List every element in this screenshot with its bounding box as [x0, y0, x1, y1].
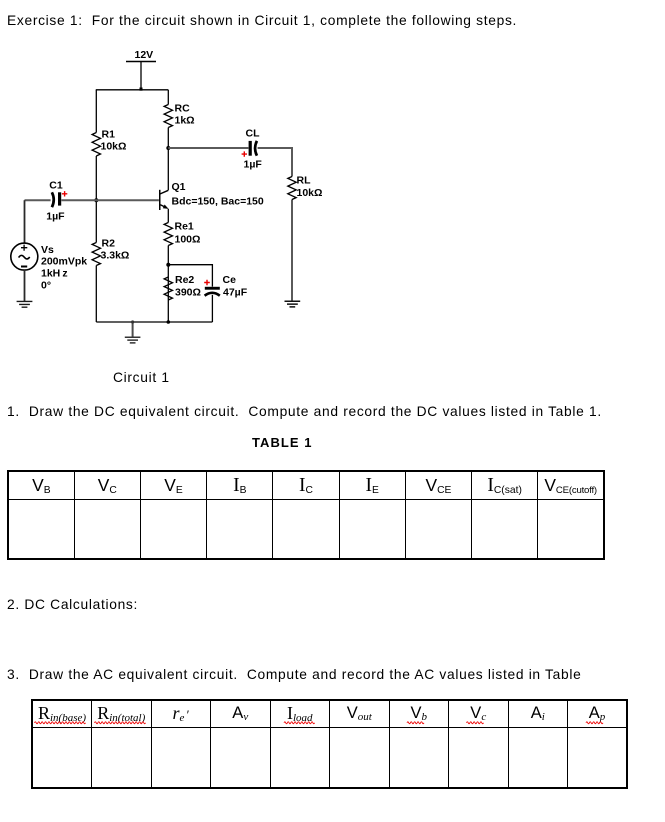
wire left branch upper [95, 90, 97, 133]
resistor R2 [92, 243, 100, 266]
transistor Q1 [159, 190, 169, 210]
svg-text:200mVpk: 200mVpk [41, 256, 87, 268]
svg-text:10kΩ: 10kΩ [297, 187, 323, 199]
wire RC branch top [167, 90, 169, 105]
item 2 [7, 598, 138, 612]
svg-text:100Ω: 100Ω [175, 234, 201, 246]
svg-text:RL: RL [297, 175, 312, 187]
svg-text:1µF: 1µF [244, 159, 263, 171]
wire emitter [167, 209, 169, 223]
svg-text:390Ω: 390Ω [175, 286, 201, 298]
TABLE 1 title [252, 436, 313, 449]
table 2 [31, 699, 628, 789]
ground main [125, 320, 141, 343]
wire source top [24, 200, 26, 243]
wire base gray [25, 199, 159, 201]
svg-text:CL: CL [246, 128, 261, 140]
node emitter junction [166, 263, 170, 267]
svg-text:12V: 12V [135, 49, 154, 61]
wire left branch middle [95, 156, 97, 243]
resistor RC [164, 105, 172, 128]
resistor RL [288, 177, 296, 200]
wire Ce bottom [211, 295, 213, 322]
caption Circuit 1 [113, 371, 170, 385]
svg-text:Ce: Ce [223, 274, 237, 286]
svg-text:0°: 0° [41, 280, 51, 292]
wire output gray [168, 147, 292, 301]
svg-text:C1: C1 [49, 180, 63, 192]
svg-text:Re1: Re1 [175, 221, 194, 233]
wire Ce top [168, 265, 212, 287]
wire bottom rail [96, 321, 212, 323]
source Vs [11, 243, 38, 270]
resistor R1 [92, 133, 100, 157]
node bottom junction [167, 320, 171, 324]
wire left branch lower [95, 266, 97, 323]
svg-text:R1: R1 [102, 129, 116, 141]
svg-text:1µF: 1µF [46, 211, 65, 223]
resistor Re1 [164, 223, 172, 246]
svg-text:Bdc=150, Bac=150: Bdc=150, Bac=150 [172, 196, 264, 208]
capacitor CL [249, 141, 257, 156]
wire source bottom [24, 270, 26, 302]
capacitor Ce [205, 287, 220, 296]
CL polarity plus [242, 151, 247, 156]
item 1 [7, 405, 602, 419]
wire collector branch [167, 128, 169, 191]
table 1 [7, 470, 605, 560]
ground load [285, 301, 301, 307]
Ce polarity plus [204, 280, 210, 286]
power supply 12V bar [126, 61, 156, 63]
svg-text:Q1: Q1 [172, 181, 186, 193]
svg-text:R2: R2 [102, 237, 116, 249]
node base junction [94, 198, 98, 202]
node collector output [166, 146, 170, 150]
Vs labels [41, 244, 87, 292]
svg-text:Re2: Re2 [175, 274, 194, 286]
svg-text:Vs: Vs [41, 244, 54, 256]
svg-text:1kΩ: 1kΩ [175, 115, 195, 127]
node supply junction [140, 88, 143, 91]
C1 polarity plus [62, 191, 67, 196]
item 3 [7, 668, 581, 682]
svg-text:3.3kΩ: 3.3kΩ [101, 249, 130, 261]
wire top rail [96, 89, 169, 91]
capacitor C1 [52, 192, 61, 207]
svg-text:47µF: 47µF [223, 286, 248, 298]
resistor Re2 [164, 277, 172, 300]
svg-text:RC: RC [175, 103, 191, 115]
heading line [7, 14, 517, 28]
svg-text:10kΩ: 10kΩ [101, 140, 127, 152]
svg-text:1kH z: 1kH z [41, 267, 68, 279]
ground source [17, 301, 33, 307]
wire emitter branch lower [167, 246, 169, 323]
wire supply stem [140, 62, 142, 90]
